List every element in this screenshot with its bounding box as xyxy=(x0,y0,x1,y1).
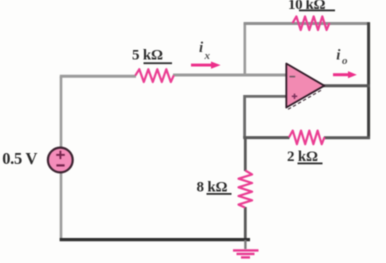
value label 10 kOhm xyxy=(288,0,335,13)
source minus sign xyxy=(56,164,64,166)
value label 2 kOhm xyxy=(287,149,323,165)
current arrow ix xyxy=(191,62,221,69)
wire: vertical feedback drop at x=245 from top rail to inverting wire xyxy=(244,23,247,75)
svg-text:2 kΩ: 2 kΩ xyxy=(287,149,318,165)
resistor 2 kOhm coil xyxy=(289,131,325,145)
value label 5 kOhm xyxy=(132,47,172,64)
wire: from 5k resistor to op-amp inverting input xyxy=(173,74,287,77)
op-amp plus input sign xyxy=(292,94,297,99)
svg-text:x: x xyxy=(204,50,211,62)
voltage source 0.5 V xyxy=(48,148,73,173)
resistor 5 kOhm coil xyxy=(135,69,174,82)
wire: vertical from 2k junction down to 8k resistor xyxy=(244,138,247,171)
wire: top rail (feedback) xyxy=(244,22,370,25)
wire: from 8k resistor down to bottom rail xyxy=(244,207,247,240)
wire: ground stub xyxy=(244,240,246,249)
svg-text:8 kΩ: 8 kΩ xyxy=(197,179,228,195)
op-amp U1 xyxy=(286,64,324,108)
svg-text:o: o xyxy=(342,55,348,67)
current label i_x xyxy=(199,40,211,62)
current arrow io xyxy=(333,71,357,78)
current label i_o xyxy=(336,48,348,67)
ground xyxy=(233,250,259,257)
svg-text:5 kΩ: 5 kΩ xyxy=(132,47,163,63)
op-amp bottom shading xyxy=(288,90,321,109)
wire: noninverting input to left then down xyxy=(245,96,287,137)
op-amp minus input sign xyxy=(290,76,296,78)
wire: right vertical from top rail to 2k row xyxy=(367,22,370,139)
resistor 8 kOhm coil xyxy=(239,171,253,208)
wire: 2k row left segment xyxy=(243,136,289,139)
wire: top-left horizontal from source column to 5k resistor xyxy=(60,75,136,78)
wire: left vertical from top-left corner to bottom-left corner xyxy=(60,76,63,239)
svg-text:0.5 V: 0.5 V xyxy=(2,149,37,168)
value label 8 kOhm xyxy=(197,179,232,195)
wire: op-amp output to right vertical xyxy=(322,84,370,87)
resistor 10 kOhm feedback coil xyxy=(293,16,330,30)
wire: 2k row right segment xyxy=(324,136,370,139)
source plus sign xyxy=(56,151,65,166)
wire: bottom rail xyxy=(60,238,250,241)
